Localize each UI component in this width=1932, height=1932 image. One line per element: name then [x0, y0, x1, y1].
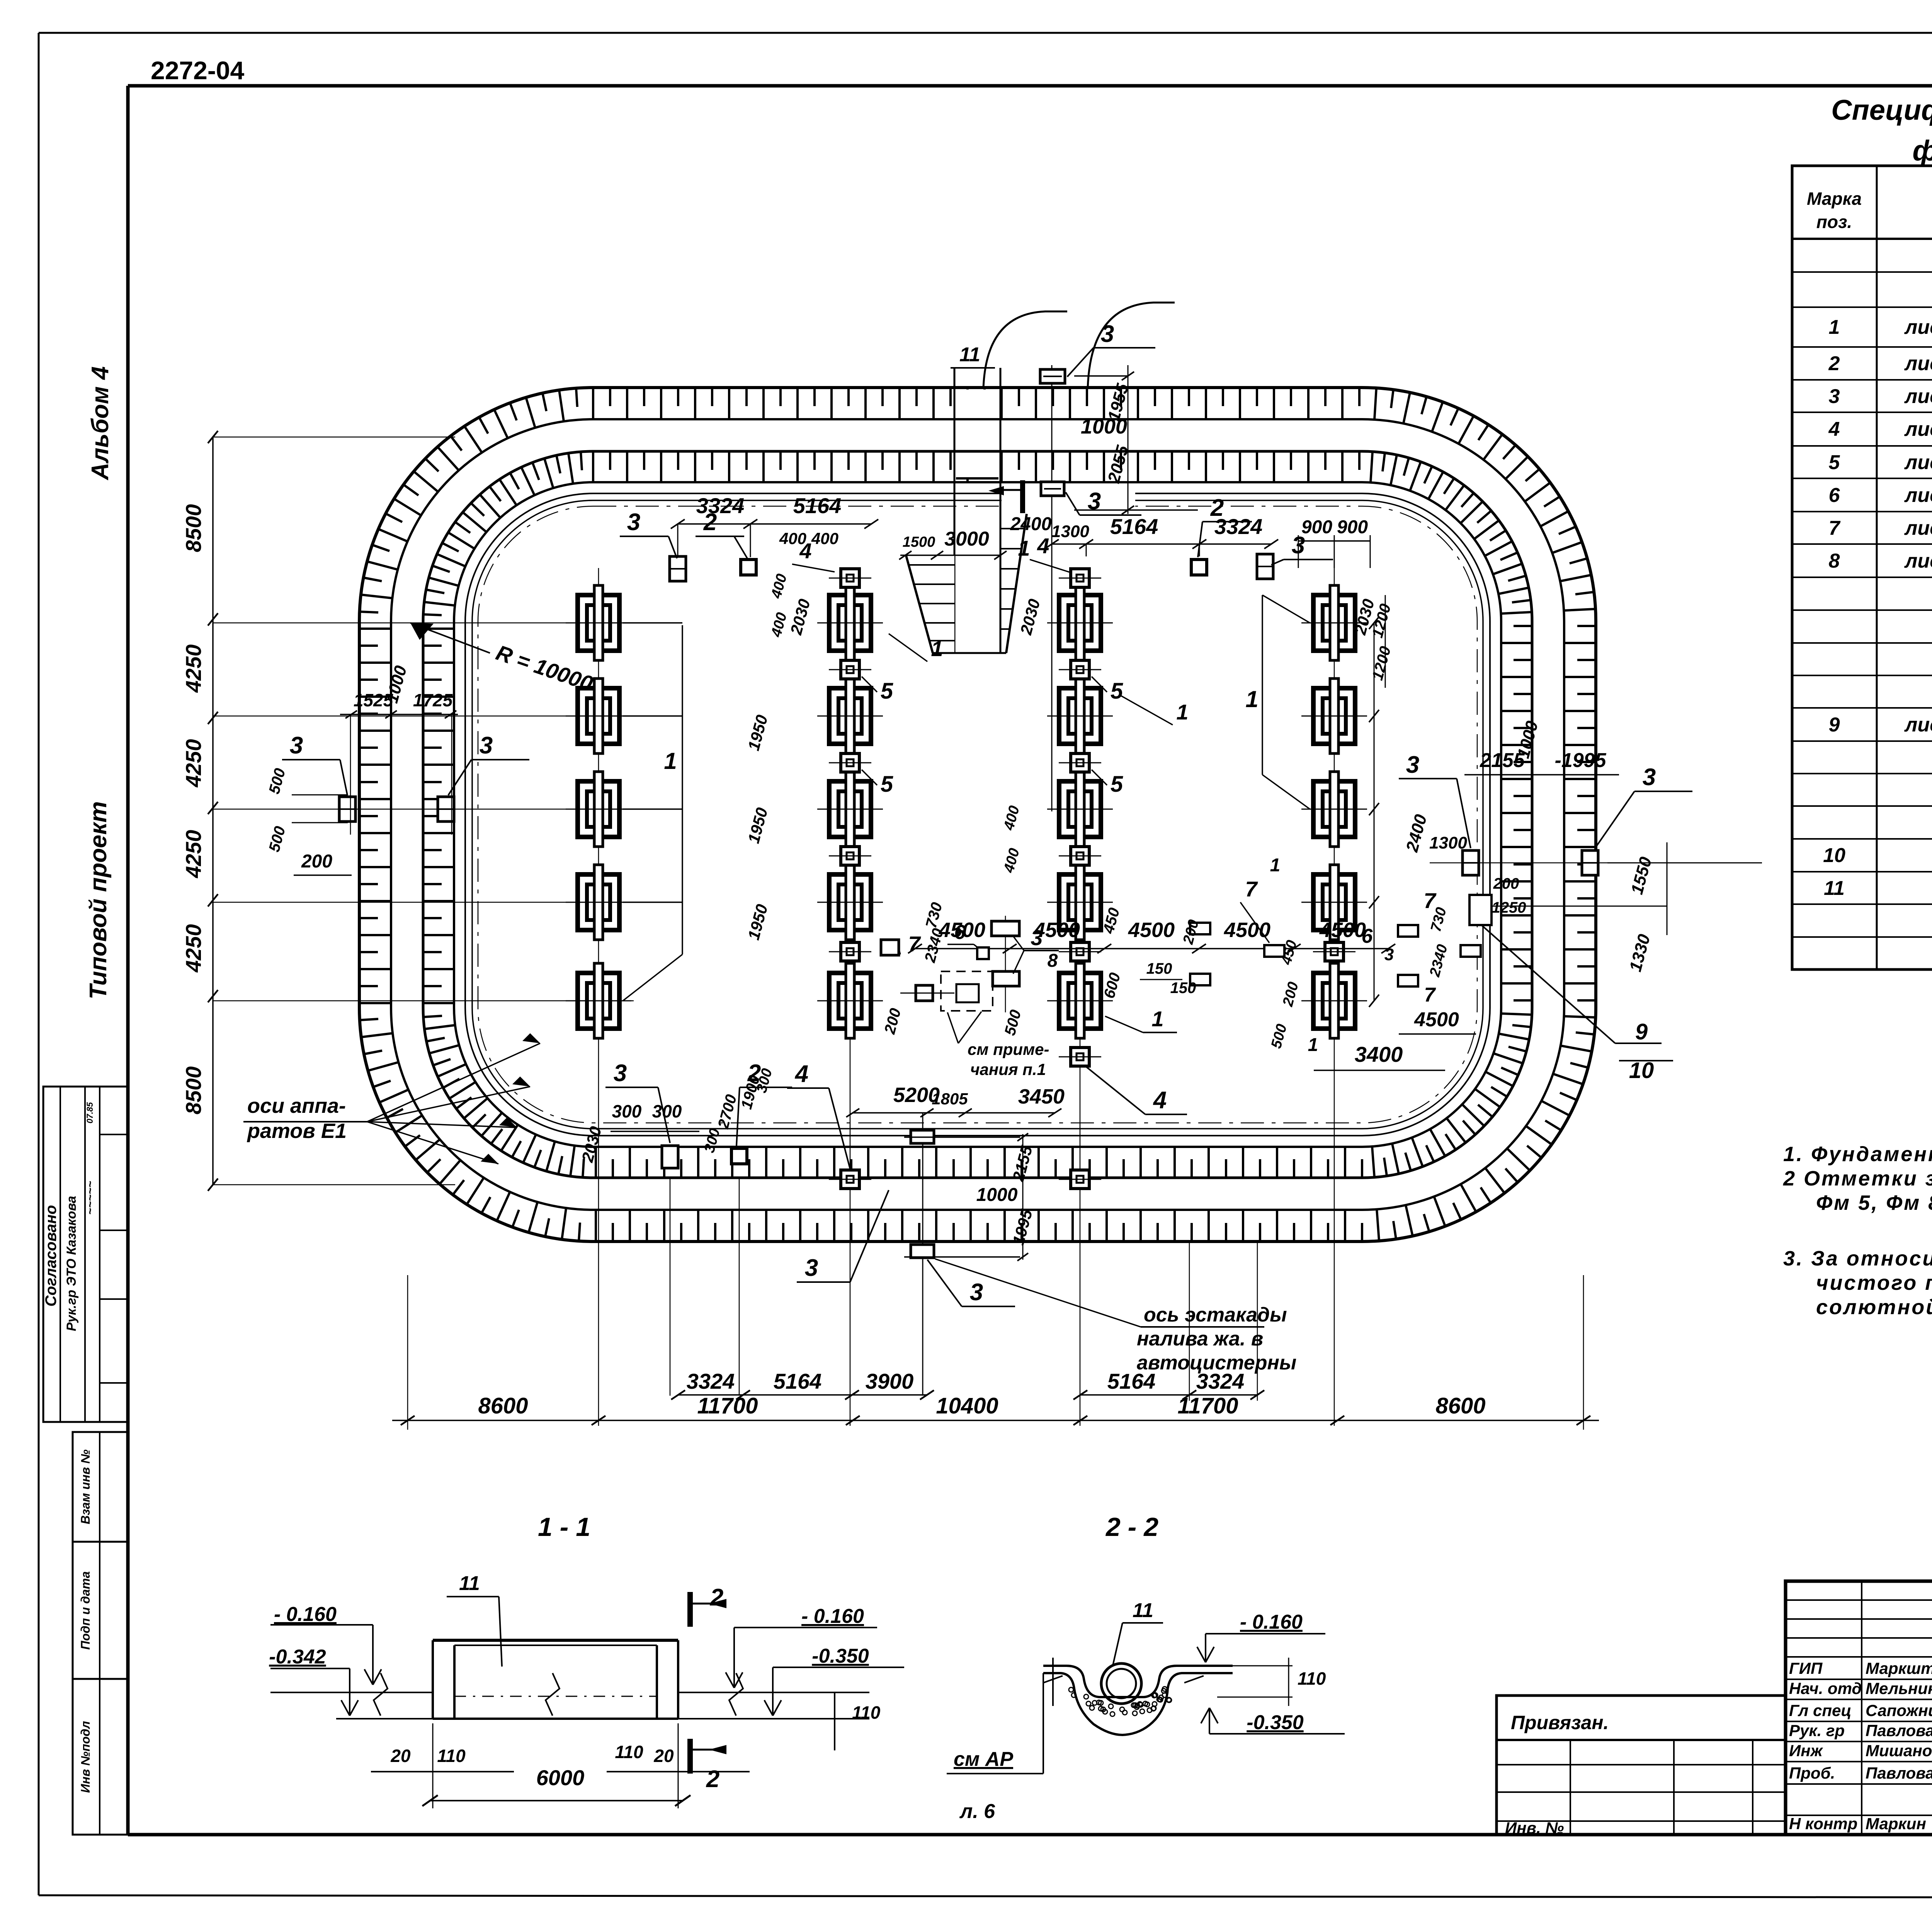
section 1-1 ground lines: [270, 1692, 433, 1693]
pos3 anchor symbol at 3806,2233: [1463, 850, 1479, 875]
pos3 anchor symbol at 1154,2094: [438, 797, 454, 821]
svg-text:300: 300: [612, 1101, 642, 1121]
svg-text:4: 4: [1153, 1087, 1167, 1114]
svg-text:5: 5: [881, 679, 893, 704]
svg-text:7: 7: [1245, 877, 1258, 901]
svg-text:лист 7: лист 7: [1904, 451, 1932, 474]
svg-text:6: 6: [1829, 484, 1840, 507]
svg-text:3000: 3000: [944, 528, 989, 550]
svg-text:-0.350: -0.350: [1247, 1711, 1304, 1734]
svg-text:110: 110: [615, 1742, 643, 1762]
svg-text:9: 9: [1635, 1019, 1648, 1044]
svg-text:5: 5: [1111, 772, 1123, 797]
grate P1 pos10: [1469, 895, 1492, 925]
road gap at filling trench: [1002, 488, 1135, 515]
svg-text:1 - 1: 1 - 1: [538, 1512, 590, 1542]
road centerline dash-dot ring: [478, 506, 1477, 1123]
svg-text:1: 1: [1245, 686, 1258, 712]
svg-text:3. За относительную отметк: 3. За относительную отметку 0.000 принят…: [1783, 1247, 1932, 1270]
svg-text:3: 3: [290, 732, 303, 759]
svg-text:1000: 1000: [976, 1185, 1018, 1205]
row axis lines: [213, 622, 634, 624]
vzam inv stamp block: [73, 1432, 128, 1542]
cluster between col3 col4: 150 150 200: [1190, 923, 1210, 934]
bund outer band hatch ticks: [359, 388, 1596, 1242]
foundation F01 symbol at 1549,1612: [578, 595, 619, 651]
svg-text:Павлова: Павлова: [1866, 1721, 1932, 1740]
pos3 anchor symbol at 1754,1472: [670, 556, 686, 581]
restore band edge lines across gap: [956, 418, 998, 420]
see note p1 dashed box: [941, 971, 993, 1011]
top pos2 pos3 row right: [1191, 560, 1207, 575]
svg-text:2 - 2: 2 - 2: [1105, 1512, 1158, 1542]
svg-text:3400: 3400: [1355, 1042, 1403, 1066]
svg-text:Согласовано: Согласовано: [43, 1205, 60, 1307]
inner drawing frame: [128, 84, 1932, 88]
foundation Fm5 small symbol at 2200,1733: [841, 660, 859, 679]
svg-text:фундаментов хранилища: фундаментов хранилища: [1912, 134, 1932, 167]
foundation F01 symbol at 2200,1612: [829, 595, 871, 651]
svg-text:Инв №подл: Инв №подл: [78, 1721, 92, 1793]
svg-text:1: 1: [1270, 855, 1281, 876]
podp i data stamp block: [73, 1542, 128, 1679]
foundation F01 symbol at 3453,1853: [1313, 688, 1355, 744]
ramp right slope rungs: [1000, 528, 1024, 529]
bottom main dim chain: [392, 1420, 1599, 1421]
foundation F01 symbol at 2795,2094: [1059, 781, 1101, 837]
svg-text:6: 6: [954, 921, 966, 944]
foundation Fm4 small symbol at 2795,2735: [1071, 1048, 1089, 1066]
pos3 anchor symbol at 899,2094: [339, 797, 355, 821]
svg-text:Нач. отд: Нач. отд: [1789, 1679, 1862, 1697]
svg-text:лист 6: лист 6: [1904, 418, 1932, 440]
svg-text:налива жа. в: налива жа. в: [1137, 1328, 1263, 1350]
svg-text:Мишанова: Мишанова: [1866, 1742, 1932, 1760]
svg-text:-1995: -1995: [1555, 749, 1607, 772]
svg-text:8500: 8500: [181, 504, 206, 553]
foundation Fm5 small symbol at 2795,1733: [1071, 660, 1089, 679]
inner road edge lines: [465, 493, 1490, 1136]
svg-text:1725: 1725: [413, 690, 453, 710]
svg-text:Маркин: Маркин: [1866, 1815, 1926, 1833]
section 2-2 edge ticks: [1052, 1658, 1054, 1706]
spec table grid: [1792, 166, 1932, 969]
svg-text:4250: 4250: [181, 830, 206, 879]
section 2-2 trench body: [1043, 1666, 1233, 1697]
svg-text:5164: 5164: [774, 1369, 822, 1393]
svg-text:8600: 8600: [478, 1393, 528, 1418]
foundation Fm6 small symbol at 3453,2463: [1325, 942, 1344, 961]
pos4 near estakada axis: [916, 985, 933, 1001]
foundation F01 symbol at 2200,1853: [829, 688, 871, 744]
svg-text:5164: 5164: [1110, 514, 1158, 539]
svg-text:4500: 4500: [1224, 918, 1270, 942]
svg-text:11: 11: [459, 1572, 480, 1595]
ramp left slope rungs: [909, 564, 954, 566]
svg-text:3: 3: [970, 1279, 983, 1306]
center cluster pos3 pair 3 8: [1005, 916, 1006, 1012]
svg-text:- 0.160: - 0.160: [274, 1603, 337, 1626]
svg-text:Спецификация к схеме расп: Спецификация к схеме расположения: [1831, 94, 1932, 126]
svg-text:300: 300: [652, 1101, 682, 1121]
svg-text:см приме-: см приме-: [968, 1040, 1049, 1058]
svg-text:1300: 1300: [1051, 522, 1089, 541]
svg-text:3: 3: [627, 509, 640, 536]
svg-text:4500: 4500: [1319, 918, 1366, 942]
svg-text:1805: 1805: [932, 1090, 968, 1108]
soglasovano stamp block: [43, 1087, 128, 1422]
svg-text:Сапожникова: Сапожникова: [1866, 1701, 1932, 1719]
svg-text:7: 7: [1424, 984, 1436, 1006]
svg-text:5164: 5164: [793, 493, 842, 518]
svg-text:Проб.: Проб.: [1789, 1764, 1835, 1782]
section 2-2 pipe 11: [1101, 1663, 1141, 1704]
svg-text:Альбом 4: Альбом 4: [87, 366, 114, 481]
section 2-2 stipple: [1086, 1701, 1091, 1706]
svg-text:1: 1: [1176, 700, 1188, 724]
top pos2 pos3 row left: [678, 523, 871, 525]
leader bracket col4 label 1: [1262, 595, 1263, 775]
svg-text:~~~~~: ~~~~~: [84, 1181, 97, 1215]
entry guide arc left: [983, 311, 1067, 388]
bottom center rotated dims 2155 1000 1995: [1022, 1134, 1024, 1260]
foundation Fm4 small symbol at 2200,1496: [841, 569, 859, 587]
pos3 symbol below inner band: [1041, 482, 1064, 496]
svg-text:3: 3: [1384, 945, 1394, 964]
svg-text:автоцистерны: автоцистерны: [1137, 1352, 1296, 1374]
foundation F01 symbol at 2795,2335: [1059, 874, 1101, 930]
foundation F01 symbol at 1549,2335: [578, 874, 619, 930]
pos3 anchor symbol at 3274,1466: [1257, 554, 1273, 579]
foundation Fm5 small symbol at 2200,1974: [841, 753, 859, 772]
svg-text:3324: 3324: [687, 1369, 735, 1393]
svg-text:1: 1: [1829, 316, 1840, 338]
ramp bottom line: [932, 652, 1006, 654]
svg-text:3: 3: [1643, 764, 1656, 791]
svg-text:Типовой проект: Типовой проект: [85, 801, 112, 1000]
outer sheet border: [39, 32, 1932, 34]
privyazan table: [1497, 1696, 1786, 1835]
svg-text:солютной отметке: солютной отметке: [1816, 1296, 1932, 1319]
svg-text:1: 1: [931, 636, 943, 661]
svg-text:Гл спец: Гл спец: [1789, 1701, 1851, 1719]
foundation F01 symbol at 3453,2094: [1313, 781, 1355, 837]
svg-text:1500: 1500: [903, 534, 935, 550]
svg-text:11: 11: [1824, 877, 1845, 900]
svg-text:3: 3: [1101, 321, 1114, 347]
svg-text:7: 7: [1829, 517, 1841, 539]
foundation F01 symbol at 2795,2590: [1059, 973, 1101, 1029]
svg-text:Павлова: Павлова: [1866, 1764, 1932, 1782]
svg-text:400: 400: [779, 529, 806, 548]
left vertical dim chain: [212, 437, 214, 1185]
white gap in bands for pipe channel: [956, 389, 998, 479]
section 1-1 channel body: [433, 1639, 678, 1642]
svg-text:9: 9: [1829, 714, 1840, 736]
svg-text:3: 3: [1829, 385, 1840, 408]
svg-text:1250: 1250: [1492, 899, 1526, 916]
svg-text:4250: 4250: [181, 739, 206, 788]
svg-text:лист 4: лист 4: [1904, 316, 1932, 338]
svg-text:Фм 5, Фм 8 - 1.500 , Фм 3: Фм 5, Фм 8 - 1.500 , Фм 3 , Фм 6, Фм 7 -…: [1816, 1191, 1932, 1214]
svg-text:7: 7: [908, 932, 921, 956]
svg-text:6: 6: [1362, 925, 1373, 947]
svg-text:1: 1: [664, 748, 677, 774]
entry guide arc right: [1088, 303, 1175, 388]
bottom center pos3 anchors estakada axis: [922, 1113, 923, 1396]
ramp cut white area below road: [906, 556, 954, 652]
svg-text:Рук.гр ЭТО Казакова: Рук.гр ЭТО Казакова: [64, 1196, 79, 1331]
svg-text:ГИП: ГИП: [1789, 1659, 1823, 1677]
foundation F01 symbol at 1549,2590: [578, 973, 619, 1029]
svg-text:150: 150: [1146, 960, 1172, 977]
pos2 symbol: [741, 560, 756, 575]
svg-text:-0.342: -0.342: [269, 1646, 326, 1668]
foundation Fm4 small symbol at 2795,3052: [1071, 1170, 1089, 1189]
ramp right slope edge: [1006, 514, 1027, 653]
foundation Fm4 small symbol at 2200,3052: [841, 1170, 859, 1189]
svg-text:4250: 4250: [181, 924, 206, 973]
svg-text:лист 7: лист 7: [1904, 484, 1932, 507]
bund loop outer band edges: [359, 388, 1596, 1242]
svg-text:см АР: см АР: [954, 1748, 1013, 1770]
foundation Fm5 small symbol at 2795,1974: [1071, 753, 1089, 772]
svg-text:5: 5: [1111, 679, 1123, 704]
svg-text:4250: 4250: [181, 645, 206, 693]
svg-text:5: 5: [1829, 451, 1840, 474]
pos3 symbol top: [1040, 369, 1065, 383]
svg-text:Инж: Инж: [1789, 1742, 1823, 1760]
svg-text:поз.: поз.: [1816, 212, 1852, 232]
foundation Fm5 small symbol at 2795,2463: [1071, 942, 1089, 961]
svg-text:07.85: 07.85: [85, 1102, 95, 1124]
svg-text:Взам инв №: Взам инв №: [78, 1449, 92, 1524]
foundation Fm5 small symbol at 2795,2215: [1071, 847, 1089, 865]
svg-text:- 0.160: - 0.160: [1240, 1611, 1303, 1633]
svg-text:- 0.160: - 0.160: [801, 1605, 864, 1628]
svg-text:Привязан.: Привязан.: [1511, 1712, 1609, 1733]
svg-text:4500: 4500: [1414, 1009, 1459, 1031]
foundation Fm5 small symbol at 2200,2215: [841, 847, 859, 865]
svg-text:лист 7: лист 7: [1904, 550, 1932, 572]
svg-text:1: 1: [1308, 1035, 1318, 1055]
foundation F01 symbol at 1549,1853: [578, 688, 619, 744]
foundation F01 symbol at 2795,1853: [1059, 688, 1101, 744]
svg-text:лист 6: лист 6: [1904, 385, 1932, 408]
svg-text:900: 900: [1301, 517, 1332, 537]
svg-text:3324: 3324: [696, 493, 745, 518]
axis verticals top center: [1051, 365, 1053, 811]
svg-text:6000: 6000: [536, 1765, 585, 1790]
foundation F01 symbol at 1549,2094: [578, 781, 619, 837]
pipe crossing channel verticals: [954, 368, 956, 652]
svg-text:110: 110: [1298, 1668, 1326, 1689]
foundation F01 symbol at 2795,1612: [1059, 595, 1101, 651]
svg-text:2: 2: [1210, 495, 1224, 521]
svg-text:лист 6: лист 6: [1904, 352, 1932, 375]
svg-text:3900: 3900: [866, 1369, 914, 1393]
bund inner band hatch ticks: [423, 451, 1532, 1178]
bund loop inner band edges: [423, 451, 1532, 1178]
svg-text:200: 200: [1493, 875, 1519, 892]
cluster 7 left of col4: [1264, 945, 1284, 957]
svg-text:4: 4: [1037, 534, 1049, 558]
svg-text:Рук. гр: Рук. гр: [1789, 1721, 1845, 1740]
foundation F01 symbol at 3453,1612: [1313, 595, 1355, 651]
svg-text:3: 3: [805, 1255, 818, 1281]
title block signature rows: [1786, 1599, 1932, 1601]
foundation F01 symbol at 3453,2590: [1313, 973, 1355, 1029]
svg-text:900: 900: [1337, 517, 1368, 537]
svg-text:5: 5: [881, 772, 893, 797]
svg-text:оси аппа-: оси аппа-: [247, 1094, 346, 1117]
svg-text:л. 6: л. 6: [959, 1800, 995, 1823]
svg-text:-0.350: -0.350: [812, 1645, 869, 1667]
svg-text:Н контр: Н контр: [1789, 1815, 1857, 1833]
svg-text:чистого пола компрессорной: чистого пола компрессорной , что соответ…: [1816, 1271, 1932, 1294]
foundation F01 symbol at 3453,2335: [1313, 874, 1355, 930]
svg-text:лист 7: лист 7: [1904, 517, 1932, 539]
svg-text:лист 8: лист 8: [1904, 714, 1932, 736]
leader to 9 10 labels: [1482, 925, 1615, 1043]
svg-text:ось эстакады: ось эстакады: [1144, 1304, 1287, 1326]
svg-text:4: 4: [794, 1061, 808, 1087]
cluster 6 7 right of col4: [1398, 925, 1418, 937]
svg-text:10400: 10400: [936, 1393, 998, 1418]
svg-text:4500: 4500: [1128, 918, 1175, 942]
svg-text:20: 20: [653, 1746, 674, 1766]
svg-text:4: 4: [1828, 418, 1840, 440]
svg-text:3450: 3450: [1018, 1085, 1065, 1108]
leader bracket col1 label 1: [682, 625, 683, 954]
svg-text:ратов Е1: ратов Е1: [247, 1119, 347, 1143]
svg-text:8500: 8500: [181, 1066, 206, 1115]
svg-text:3: 3: [1406, 752, 1419, 778]
svg-text:11: 11: [959, 344, 980, 366]
svg-text:Марка: Марка: [1807, 189, 1862, 209]
svg-text:110: 110: [437, 1746, 466, 1766]
svg-text:20: 20: [390, 1746, 411, 1766]
foundation Fm5 small symbol at 2200,2463: [841, 942, 859, 961]
svg-text:11: 11: [1133, 1599, 1153, 1622]
svg-text:10: 10: [1629, 1058, 1654, 1083]
svg-text:400: 400: [811, 529, 838, 548]
svg-text:Маркштедер: Маркштедер: [1866, 1659, 1932, 1677]
bottom chain extension verticals: [407, 1275, 408, 1430]
foundation Fm4 small symbol at 2795,1496: [1071, 569, 1089, 587]
svg-text:чания п.1: чания п.1: [970, 1060, 1046, 1078]
svg-text:Подп и дата: Подп и дата: [78, 1571, 92, 1650]
svg-text:8600: 8600: [1435, 1393, 1485, 1418]
svg-text:1. Фундаменты под эстак: 1. Фундаменты под эстакаду замаркированы…: [1783, 1143, 1932, 1166]
svg-text:110: 110: [852, 1702, 881, 1723]
col4 vertical dim chain 4500: [1374, 623, 1375, 1001]
title block outer: [1786, 1581, 1932, 1835]
svg-text:200: 200: [301, 851, 332, 872]
column axis lines: [598, 568, 599, 1426]
svg-text:11700: 11700: [697, 1393, 758, 1418]
svg-text:2 Отметки заложения фун: 2 Отметки заложения фундаментов Ф01, Фм …: [1783, 1167, 1932, 1190]
section 1-1 break marks: [374, 1673, 388, 1716]
foundation F01 symbol at 2200,2335: [829, 874, 871, 930]
svg-text:10: 10: [1823, 844, 1845, 867]
svg-text:2272-04: 2272-04: [151, 56, 245, 85]
svg-text:8: 8: [1048, 951, 1058, 971]
svg-text:Инв. №: Инв. №: [1505, 1819, 1564, 1837]
right band pos3 anchors: [1430, 862, 1762, 864]
foundation F01 symbol at 2200,2094: [829, 781, 871, 837]
svg-text:8: 8: [1829, 550, 1840, 572]
svg-text:2: 2: [706, 1766, 719, 1793]
center dim chain 4500 x5: [915, 948, 1388, 949]
svg-text:1300: 1300: [1429, 833, 1467, 852]
svg-text:3: 3: [614, 1060, 627, 1087]
svg-text:Мельников: Мельников: [1866, 1679, 1932, 1697]
svg-text:3: 3: [1031, 925, 1043, 950]
svg-text:1: 1: [1151, 1007, 1163, 1031]
svg-text:150: 150: [1170, 980, 1196, 997]
svg-text:3: 3: [480, 732, 493, 759]
bottom secondary dim chain: [678, 1394, 927, 1396]
pos3 anchor symbol at 4115,2233: [1582, 850, 1598, 875]
inv podl stamp block: [73, 1679, 128, 1835]
section cut mark 1 at entry: [1020, 480, 1025, 513]
foundation F01 symbol at 2200,2590: [829, 973, 871, 1029]
ramp left slope edge: [906, 556, 933, 653]
bottom left pos rows 3 2: [670, 1179, 671, 1396]
svg-text:2: 2: [710, 1584, 723, 1611]
svg-text:2400: 2400: [1010, 514, 1052, 534]
svg-text:1: 1: [1018, 536, 1030, 560]
svg-text:1000: 1000: [1081, 415, 1127, 438]
svg-text:2: 2: [1828, 352, 1840, 375]
